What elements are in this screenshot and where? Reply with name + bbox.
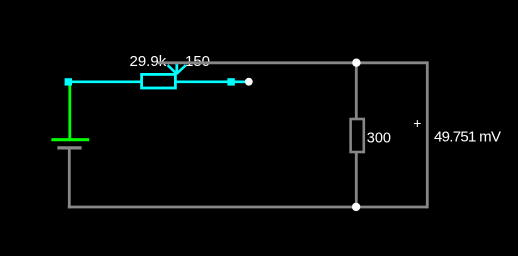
battery V1: negative plate (gray, short)	[57, 146, 81, 149]
node: unconnected post (white dot)	[245, 78, 253, 86]
resistor 300 ohm (box style)	[351, 119, 364, 152]
wire: battery positive lead (green)	[68, 82, 71, 140]
svg-text:300: 300	[367, 130, 391, 146]
wire: resistor top lead	[355, 63, 358, 119]
wire: top net from potentiometer wiper to top-right corner	[158, 61, 427, 64]
wire: potentiometer right lead to open post (cyan)	[175, 81, 248, 84]
potentiometer wiper arrowhead right arm	[177, 65, 186, 73]
wire: right side vertical (voltmeter branch)	[426, 61, 429, 208]
wire: battery negative lead down to bottom net	[68, 148, 71, 208]
potentiometer wiper arrow shaft	[175, 64, 178, 74]
wire: bottom net	[68, 206, 428, 209]
handle: selected wire endpoint square at battery post	[65, 78, 72, 85]
battery V1: positive plate (green, long)	[51, 138, 89, 141]
handle: selected element endpoint square near open post	[227, 78, 234, 85]
potentiometer body (cyan box)	[142, 74, 176, 88]
node: bottom junction dot	[352, 203, 360, 211]
potentiometer wiper arrowhead left arm	[168, 65, 177, 73]
svg-text:+: +	[413, 115, 421, 131]
wire: resistor bottom lead	[355, 153, 358, 208]
svg-text:49.751 mV: 49.751 mV	[434, 128, 501, 145]
wire: selected wire from battery to potentiometer (cyan)	[66, 81, 142, 84]
node: top junction dot	[352, 59, 360, 67]
